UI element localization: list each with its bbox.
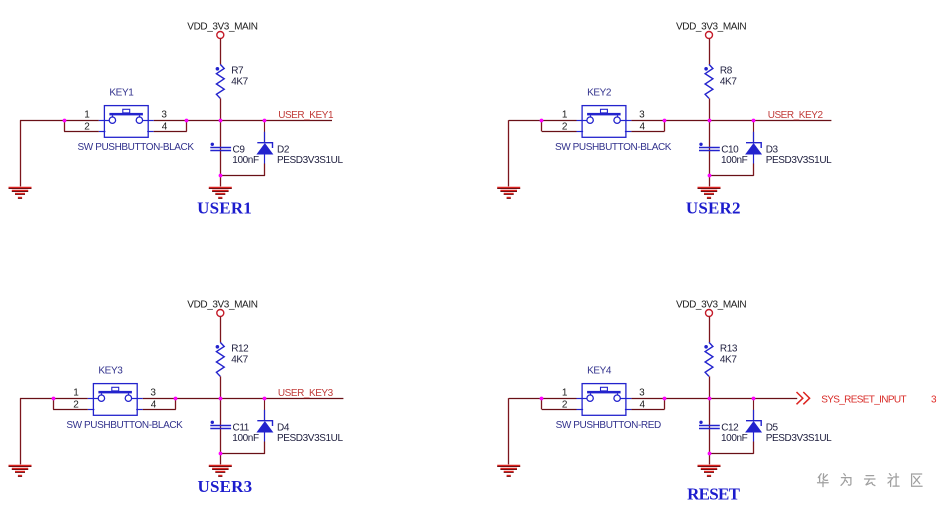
svg-text:3: 3: [161, 109, 167, 120]
svg-text:1: 1: [73, 387, 79, 398]
svg-text:PESD3V3S1UL: PESD3V3S1UL: [277, 433, 343, 444]
svg-text:R13: R13: [720, 344, 738, 355]
svg-text:100nF: 100nF: [721, 155, 748, 166]
svg-text:KEY3: KEY3: [98, 366, 123, 377]
svg-text:SYS_RESET_INPUT: SYS_RESET_INPUT: [821, 395, 906, 406]
svg-text:3: 3: [931, 395, 937, 406]
svg-text:D2: D2: [277, 144, 290, 155]
svg-text:4K7: 4K7: [231, 354, 248, 365]
svg-text:D5: D5: [766, 422, 779, 433]
svg-text:VDD_3V3_MAIN: VDD_3V3_MAIN: [187, 22, 257, 33]
svg-text:KEY4: KEY4: [587, 366, 612, 377]
svg-text:RESET: RESET: [687, 485, 741, 504]
svg-text:R7: R7: [231, 66, 244, 77]
svg-text:100nF: 100nF: [232, 433, 259, 444]
svg-text:USER3: USER3: [197, 477, 252, 496]
svg-text:SW PUSHBUTTON-RED: SW PUSHBUTTON-RED: [556, 420, 661, 431]
svg-text:KEY2: KEY2: [587, 88, 612, 99]
svg-text:C10: C10: [721, 144, 739, 155]
svg-text:3: 3: [150, 387, 156, 398]
svg-text:USER_KEY2: USER_KEY2: [768, 110, 824, 121]
svg-text:KEY1: KEY1: [109, 88, 134, 99]
svg-text:4K7: 4K7: [231, 76, 248, 87]
svg-text:100nF: 100nF: [232, 155, 259, 166]
svg-text:C9: C9: [233, 144, 246, 155]
svg-text:VDD_3V3_MAIN: VDD_3V3_MAIN: [676, 22, 746, 33]
svg-text:SW PUSHBUTTON-BLACK: SW PUSHBUTTON-BLACK: [66, 420, 183, 431]
svg-text:USER_KEY1: USER_KEY1: [278, 110, 334, 121]
svg-text:100nF: 100nF: [721, 433, 748, 444]
svg-text:3: 3: [639, 387, 645, 398]
svg-text:4K7: 4K7: [720, 354, 737, 365]
svg-text:C12: C12: [721, 422, 739, 433]
svg-text:VDD_3V3_MAIN: VDD_3V3_MAIN: [676, 300, 746, 311]
svg-text:3: 3: [639, 109, 645, 120]
svg-text:SW PUSHBUTTON-BLACK: SW PUSHBUTTON-BLACK: [78, 142, 195, 153]
svg-text:USER_KEY3: USER_KEY3: [278, 388, 334, 399]
svg-text:D4: D4: [277, 422, 290, 433]
svg-text:PESD3V3S1UL: PESD3V3S1UL: [766, 433, 832, 444]
svg-text:USER2: USER2: [686, 199, 741, 218]
svg-text:SW PUSHBUTTON-BLACK: SW PUSHBUTTON-BLACK: [555, 142, 672, 153]
svg-text:1: 1: [562, 109, 568, 120]
svg-text:1: 1: [84, 109, 90, 120]
svg-text:R8: R8: [720, 66, 733, 77]
svg-text:PESD3V3S1UL: PESD3V3S1UL: [766, 155, 832, 166]
svg-text:PESD3V3S1UL: PESD3V3S1UL: [277, 155, 343, 166]
svg-text:C11: C11: [233, 422, 250, 433]
svg-text:4K7: 4K7: [720, 76, 737, 87]
svg-text:USER1: USER1: [197, 199, 252, 218]
svg-text:R12: R12: [231, 344, 249, 355]
svg-text:D3: D3: [766, 144, 779, 155]
svg-text:VDD_3V3_MAIN: VDD_3V3_MAIN: [187, 300, 257, 311]
svg-text:1: 1: [562, 387, 568, 398]
